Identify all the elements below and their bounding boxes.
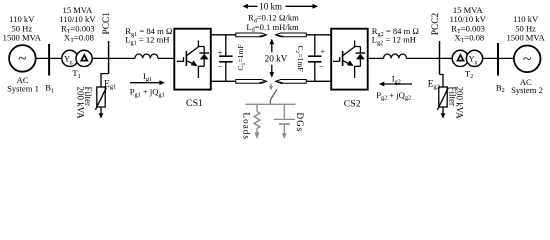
wire filter 1 connection <box>101 74 109 88</box>
svg-text:Pg1 + jQg1: Pg1 + jQg1 <box>130 87 165 99</box>
cable segment top right <box>276 33 307 37</box>
wire AC system 1 to CS1 <box>35 57 174 59</box>
wire filter 2 connection <box>440 75 444 88</box>
label Filter 200 kVA (left) <box>76 87 93 120</box>
svg-text:T2: T2 <box>465 68 473 80</box>
dimension arrows 10 km <box>242 2 318 12</box>
svg-text:~: ~ <box>523 51 531 68</box>
IGBT U1 inside CS1 <box>177 41 209 79</box>
label AC System 2 <box>511 77 543 95</box>
svg-text:XT=0.08: XT=0.08 <box>64 32 94 44</box>
bus PCC1 <box>108 41 110 74</box>
capacitor C2 <box>308 35 325 82</box>
wire CS1 DC top <box>211 34 236 36</box>
capacitor C1 <box>218 35 233 82</box>
label Rg2 Lg2 values <box>372 26 419 46</box>
svg-text:DGs: DGs <box>295 113 305 133</box>
svg-text:Filter: Filter <box>83 87 93 107</box>
filter F2 <box>437 87 448 110</box>
current arrow Ig1 <box>130 71 165 85</box>
bus PCC2 <box>439 41 441 75</box>
svg-text:C2=1mF: C2=1mF <box>294 45 305 71</box>
svg-text:CS1: CS1 <box>186 98 203 109</box>
label source 1 ratings <box>3 14 42 42</box>
svg-text:T1: T1 <box>72 68 80 80</box>
svg-text:C1=1mF: C1=1mF <box>236 44 247 70</box>
wire CS1 DC bottom <box>211 80 236 82</box>
svg-text:Eg2: Eg2 <box>428 80 440 91</box>
voltage arrows 20 kV <box>265 39 288 78</box>
svg-text:Ig1: Ig1 <box>143 71 152 83</box>
svg-text:200 kVA: 200 kVA <box>455 87 465 120</box>
transformer T1 <box>62 50 92 66</box>
inductor Rg1 Lg1 <box>135 54 158 58</box>
ground arrow filter 1 <box>99 107 104 119</box>
label Filter 200 kVA (right) <box>447 87 464 120</box>
svg-text:Ld=0.1 mH/km: Ld=0.1 mH/km <box>246 22 299 34</box>
svg-text:+: + <box>321 47 326 56</box>
svg-text:+: + <box>218 48 223 57</box>
label source 2 ratings <box>506 14 545 42</box>
label cable parameters <box>246 13 299 34</box>
svg-text:PCC1: PCC1 <box>102 12 112 35</box>
svg-text:1500 MVA: 1500 MVA <box>506 32 545 42</box>
filter F1 <box>95 87 106 110</box>
ground arrow filter 2 <box>441 107 446 119</box>
svg-text:−: − <box>218 62 223 71</box>
svg-text:PCC2: PCC2 <box>431 12 441 35</box>
converter CS1 box <box>174 29 211 90</box>
svg-text:System 1: System 1 <box>7 84 39 94</box>
svg-text:Pg2 + jQg2: Pg2 + jQg2 <box>376 90 411 102</box>
svg-text:CS2: CS2 <box>344 98 361 109</box>
inductor Rg2 Lg2 <box>384 54 407 58</box>
bus B2 <box>497 43 499 76</box>
current arrow Ig2 <box>379 74 412 87</box>
cable segment bottom left <box>236 80 267 84</box>
svg-text:Eg1: Eg1 <box>104 80 116 91</box>
svg-text:−: − <box>319 62 324 71</box>
svg-text:B1: B1 <box>45 83 54 95</box>
IGBT U2 inside CS2 <box>333 41 365 79</box>
bus B1 <box>48 44 50 76</box>
svg-text:Loads: Loads <box>242 113 252 140</box>
svg-text:System 2: System 2 <box>511 85 543 95</box>
transformer T2 <box>452 50 482 66</box>
label transformer T2 ratings <box>450 5 487 44</box>
svg-text:1500 MVA: 1500 MVA <box>3 32 42 42</box>
switch to LVDC feeder <box>269 84 277 105</box>
wire CS2 to AC system 2 <box>368 57 515 59</box>
svg-text:XT=0.08: XT=0.08 <box>454 32 484 44</box>
cable segment bottom right <box>276 80 307 84</box>
wire bottom right DC to CS2 <box>306 80 331 82</box>
wire top right DC to CS2 <box>306 34 331 36</box>
DG branch source <box>274 104 295 139</box>
AC source G1 <box>9 45 36 72</box>
load branch resistor <box>254 104 260 139</box>
label Rg1 Lg1 values <box>125 26 172 46</box>
svg-text:20 kV: 20 kV <box>265 53 288 63</box>
feeder bus <box>246 103 296 105</box>
svg-text:B2: B2 <box>496 82 505 94</box>
AC source G2 <box>514 46 541 73</box>
label transformer T1 ratings <box>59 5 96 44</box>
converter CS2 box <box>331 29 368 90</box>
cable segment top left <box>236 33 267 37</box>
svg-text:~: ~ <box>18 51 26 68</box>
svg-text:10 km: 10 km <box>259 2 282 12</box>
label AC System 1 <box>7 75 39 93</box>
